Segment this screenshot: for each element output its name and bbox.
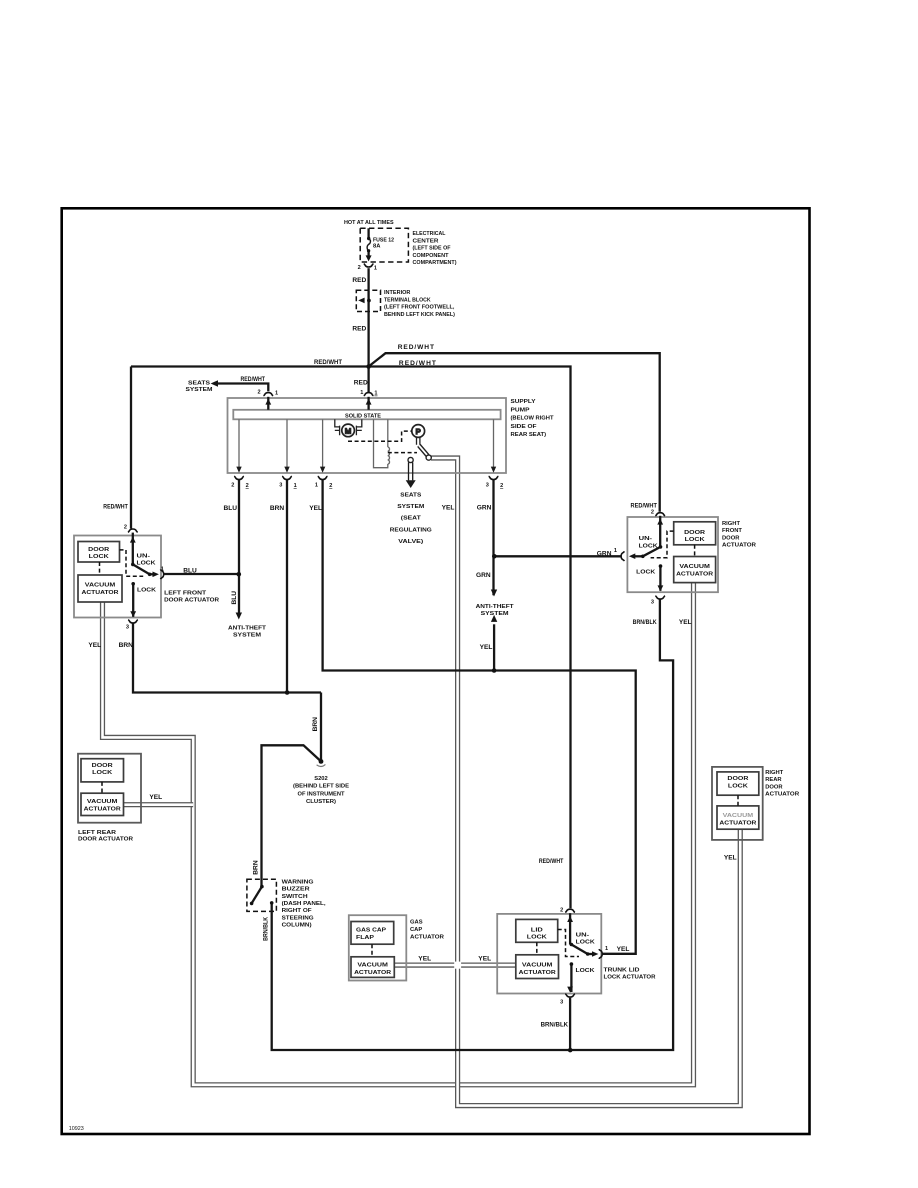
pump P	[408, 425, 431, 463]
door lock box LR	[81, 759, 124, 782]
svg-text:ANTI-THEFT: ANTI-THEFT	[228, 625, 266, 631]
svg-text:YEL: YEL	[480, 644, 493, 651]
svg-text:LOCK: LOCK	[576, 939, 596, 945]
valve lever capsule	[419, 445, 428, 455]
svg-text:(DASH PANEL,: (DASH PANEL,	[282, 901, 326, 907]
svg-text:ACTUATOR: ACTUATOR	[84, 806, 122, 812]
svg-text:1: 1	[374, 266, 377, 272]
svg-text:YEL: YEL	[149, 794, 162, 801]
door lock box LF	[78, 542, 120, 563]
interior block left arrow	[358, 298, 364, 304]
svg-text:RED/WHT: RED/WHT	[399, 360, 436, 367]
svg-text:REAR SEAT): REAR SEAT)	[511, 432, 547, 438]
LF switch right arrow	[153, 572, 159, 578]
svg-text:BRN: BRN	[312, 717, 319, 732]
BRN down to S202	[320, 693, 322, 762]
seat valve arrow	[406, 462, 416, 488]
supply pump box	[228, 398, 507, 473]
svg-text:WARNING: WARNING	[282, 879, 315, 885]
trunk switch right arrow	[592, 951, 598, 957]
svg-text:STEERING: STEERING	[282, 915, 315, 921]
junction BRN	[285, 690, 290, 695]
buzzer blade	[252, 887, 262, 904]
svg-text:P: P	[416, 427, 421, 436]
svg-text:2: 2	[560, 908, 563, 914]
LF pin2 wire inside	[132, 533, 134, 565]
seats system left arrow	[211, 380, 218, 387]
svg-text:3: 3	[486, 482, 489, 488]
svg-text:SUPPLY: SUPPLY	[511, 399, 536, 405]
red/wht to trunk	[369, 367, 571, 909]
seats system connector 2/1	[263, 393, 273, 396]
vacuum hose supply pump to right rear door	[431, 458, 740, 1106]
vacuum actuator box GC	[351, 957, 394, 978]
red/wht horizontal to left	[131, 365, 369, 367]
junction BRN/BLK	[568, 1048, 573, 1053]
svg-text:ACTUATOR: ACTUATOR	[82, 590, 120, 596]
svg-text:VACUUM: VACUUM	[85, 583, 116, 589]
svg-text:S202: S202	[314, 776, 328, 782]
svg-text:LEFT FRONT: LEFT FRONT	[164, 591, 207, 597]
GRAY BOXES	[74, 398, 763, 994]
wire main connector into box	[367, 397, 369, 410]
svg-text:3: 3	[279, 482, 282, 488]
svg-text:1: 1	[294, 483, 297, 489]
door lock box RF	[674, 522, 716, 545]
svg-text:SYSTEM: SYSTEM	[481, 611, 509, 617]
svg-text:BLU: BLU	[224, 505, 238, 512]
junction RED/WHT splice	[366, 364, 371, 369]
svg-text:BRN/BLK: BRN/BLK	[263, 917, 270, 941]
DASHED LINKS	[100, 228, 739, 957]
LF lock wire	[132, 584, 134, 617]
svg-text:8A: 8A	[373, 244, 381, 250]
vacuum actuator box RR	[717, 806, 759, 829]
gas cap flap box	[351, 922, 394, 945]
vacuum hose left rear branch	[124, 802, 194, 807]
svg-text:YEL: YEL	[418, 956, 431, 963]
fuse bottom connector	[364, 264, 374, 267]
RF up arrow	[657, 519, 663, 525]
seats connector up arrow	[265, 399, 271, 405]
svg-text:BUZZER: BUZZER	[282, 887, 311, 893]
svg-text:SEATS: SEATS	[400, 493, 421, 499]
trunk lock wire	[570, 964, 572, 992]
LF switch lock contact	[131, 582, 135, 586]
RF switch left arrow	[629, 553, 635, 559]
svg-text:(SEAT: (SEAT	[401, 516, 422, 522]
svg-text:2: 2	[231, 482, 234, 488]
svg-text:BEHIND LEFT KICK PANEL): BEHIND LEFT KICK PANEL)	[384, 312, 455, 318]
svg-text:VACUUM: VACUUM	[87, 799, 118, 805]
svg-text:SOLID STATE: SOLID STATE	[345, 413, 381, 419]
svg-text:BRN/BLK: BRN/BLK	[633, 619, 657, 626]
svg-text:RED: RED	[354, 380, 368, 387]
RF blade	[643, 547, 661, 556]
svg-text:CENTER: CENTER	[413, 238, 440, 244]
LF pin1 connector	[161, 569, 164, 579]
coil	[388, 447, 390, 464]
svg-text:UN-: UN-	[576, 932, 590, 938]
svg-text:ANTI-THEFT: ANTI-THEFT	[476, 604, 514, 610]
trunk pin2 inside	[569, 913, 571, 944]
buzzer switch blade end	[250, 902, 254, 906]
buzzer switch output contact	[270, 901, 274, 905]
svg-text:2: 2	[246, 483, 249, 489]
svg-text:VACUUM: VACUUM	[723, 813, 754, 819]
svg-text:VACUUM: VACUUM	[679, 564, 710, 570]
RF switch common contact	[641, 555, 645, 559]
YEL from pump	[323, 480, 636, 954]
svg-text:BLU: BLU	[231, 591, 238, 605]
svg-text:1: 1	[614, 548, 617, 554]
left front door actuator box	[74, 536, 161, 618]
svg-text:BLU: BLU	[183, 567, 197, 574]
drop line YEL	[322, 419, 324, 468]
lid lock box TR	[516, 919, 558, 942]
YEL anti-theft up arrow	[491, 615, 497, 622]
svg-text:SYSTEM: SYSTEM	[186, 387, 213, 393]
fuse terminal dot bottom	[367, 249, 370, 252]
svg-text:RED/WHT: RED/WHT	[241, 377, 266, 383]
junction BLU	[237, 572, 242, 577]
LF arrow to pin1	[150, 573, 155, 575]
main red connector 1/1	[364, 393, 374, 396]
buzzer switch contact top	[260, 885, 264, 889]
terminal block junction dot	[367, 299, 371, 303]
svg-text:GAS CAP: GAS CAP	[356, 928, 386, 934]
S202 hook	[317, 764, 326, 766]
fuse element	[367, 239, 370, 251]
svg-text:DOOR: DOOR	[727, 776, 749, 782]
seats system wire top left	[215, 384, 268, 392]
S202 splice	[319, 759, 324, 764]
trunk up arrow	[567, 916, 573, 922]
svg-text:ACTUATOR: ACTUATOR	[354, 970, 392, 976]
LF pin3 down and BRN horizontal	[133, 624, 321, 693]
svg-text:COMPONENT: COMPONENT	[413, 253, 449, 259]
main connector up arrow	[366, 399, 372, 405]
svg-text:REAR: REAR	[765, 777, 782, 783]
svg-text:RIGHT: RIGHT	[722, 521, 740, 527]
svg-text:REGULATING: REGULATING	[390, 527, 433, 533]
svg-text:VACUUM: VACUUM	[522, 962, 553, 968]
seat port circle	[408, 457, 413, 462]
svg-text:BRN: BRN	[253, 860, 260, 875]
svg-text:SWITCH: SWITCH	[282, 894, 308, 900]
vacuum hose gas cap to trunk	[394, 962, 516, 967]
svg-text:LOCK ACTUATOR: LOCK ACTUATOR	[604, 975, 657, 981]
LF pin2 connector	[128, 529, 138, 532]
svg-text:INTERIOR: INTERIOR	[384, 290, 411, 296]
vacuum actuator box RF	[674, 557, 716, 583]
svg-text:DOOR ACTUATOR: DOOR ACTUATOR	[78, 837, 134, 843]
wire RED fuse to terminal block	[367, 268, 369, 290]
RF pin2 inside	[659, 516, 661, 547]
motor M	[335, 419, 362, 436]
svg-text:SYSTEM: SYSTEM	[233, 632, 261, 638]
red/wht diagonal and top line to RF	[369, 353, 660, 512]
door lock box RR	[717, 772, 759, 795]
vacuum actuator box LR	[81, 793, 124, 815]
svg-text:LOCK: LOCK	[576, 968, 596, 974]
trunk switch unlock contact	[570, 943, 574, 947]
svg-text:COMPARTMENT): COMPARTMENT)	[413, 260, 457, 266]
svg-text:2: 2	[358, 265, 361, 271]
right rear door actuator box	[712, 767, 763, 840]
svg-text:3: 3	[560, 999, 563, 1005]
svg-text:YEL: YEL	[442, 505, 455, 512]
trunk lid lock actuator box	[497, 914, 601, 994]
svg-text:1: 1	[275, 391, 278, 397]
vacuum actuator box TR	[516, 955, 559, 979]
vacuum actuator box LF	[78, 575, 122, 602]
svg-text:BRN: BRN	[270, 505, 285, 512]
svg-text:SYSTEM: SYSTEM	[397, 504, 424, 510]
svg-text:LID: LID	[531, 927, 543, 933]
coil loop	[374, 419, 388, 467]
YEL branch anti-theft	[493, 624, 495, 670]
svg-text:ACTUATOR: ACTUATOR	[519, 970, 557, 976]
svg-text:PUMP: PUMP	[511, 407, 530, 413]
svg-text:(LEFT FRONT FOOTWELL,: (LEFT FRONT FOOTWELL,	[384, 305, 455, 311]
svg-text:RED: RED	[352, 277, 366, 284]
svg-text:UN-: UN-	[137, 554, 151, 560]
svg-text:YEL: YEL	[478, 956, 491, 963]
svg-text:DOOR ACTUATOR: DOOR ACTUATOR	[164, 598, 220, 604]
trunk pin1 connector	[599, 949, 602, 959]
junction GRN	[492, 554, 497, 559]
svg-text:DOOR: DOOR	[88, 547, 110, 553]
RF switch unlock contact	[659, 545, 663, 549]
svg-text:FRONT: FRONT	[722, 528, 742, 534]
svg-text:YEL: YEL	[309, 505, 322, 512]
svg-text:LOCK: LOCK	[92, 770, 113, 776]
RF pin2 connector	[655, 513, 665, 516]
svg-text:LOCK: LOCK	[636, 569, 656, 575]
svg-text:SIDE OF: SIDE OF	[511, 424, 538, 430]
svg-text:(BEHIND LEFT SIDE: (BEHIND LEFT SIDE	[293, 784, 349, 790]
RF arrow shaft to pin1	[633, 555, 643, 557]
outer page border	[62, 208, 810, 1134]
RF pin3 inside	[659, 566, 661, 591]
trunk switch lock contact	[570, 962, 574, 966]
svg-text:YEL: YEL	[617, 946, 630, 953]
svg-text:VALVE): VALVE)	[398, 539, 423, 545]
svg-text:OF INSTRUMENT: OF INSTRUMENT	[298, 791, 345, 797]
svg-text:1: 1	[605, 946, 608, 952]
BLU wire	[238, 480, 240, 614]
S202 branch to buzzer	[262, 745, 322, 886]
pump bottom connector pins	[234, 476, 244, 479]
gas cap actuator box	[349, 915, 407, 980]
svg-text:HOT AT ALL TIMES: HOT AT ALL TIMES	[344, 220, 394, 226]
svg-text:FUSE 12: FUSE 12	[373, 237, 394, 243]
RF switch lock contact	[659, 564, 663, 568]
svg-text:RED/WHT: RED/WHT	[103, 504, 128, 511]
svg-text:ACTUATOR: ACTUATOR	[722, 543, 757, 549]
svg-text:M: M	[345, 426, 351, 435]
GRN horizontal to RF pin1	[494, 555, 620, 557]
red/wht left vertical to LF pin2	[130, 367, 132, 529]
svg-text:GRN: GRN	[477, 505, 492, 512]
svg-text:1: 1	[161, 566, 164, 572]
LF switch unlock contact	[131, 563, 135, 567]
RF pin3 connector	[655, 596, 665, 599]
trunk down arrow pin3	[567, 987, 573, 993]
junction YEL	[492, 668, 497, 673]
svg-text:DOOR: DOOR	[92, 763, 114, 769]
svg-text:CAP: CAP	[410, 927, 422, 933]
LF up arrow	[130, 537, 136, 543]
svg-text:ACTUATOR: ACTUATOR	[676, 572, 714, 578]
LF pin3 connector	[128, 620, 138, 623]
trunk switch common contact	[586, 952, 590, 956]
svg-text:ACTUATOR: ACTUATOR	[410, 935, 445, 941]
GRN wire	[492, 480, 494, 595]
svg-text:COLUMN): COLUMN)	[282, 923, 312, 929]
svg-text:FLAP: FLAP	[356, 935, 374, 941]
svg-text:UN-: UN-	[639, 536, 653, 542]
svg-text:SEATS: SEATS	[188, 380, 210, 386]
PUMP INTERNALS	[239, 419, 494, 468]
fuse arrow	[366, 255, 372, 261]
svg-text:DOOR: DOOR	[722, 535, 740, 541]
svg-text:RED/WHT: RED/WHT	[398, 344, 434, 351]
BRN from pump	[286, 480, 288, 693]
fuse wire top	[367, 228, 369, 238]
LF switch common contact	[148, 573, 152, 577]
svg-text:DOOR: DOOR	[684, 530, 706, 536]
svg-text:GRN: GRN	[597, 550, 612, 557]
svg-text:LOCK: LOCK	[639, 543, 659, 549]
trunk pin3 connector	[565, 994, 575, 997]
svg-text:1: 1	[315, 482, 318, 488]
left rear door actuator box	[78, 754, 141, 823]
svg-text:BRN/BLK: BRN/BLK	[541, 1022, 569, 1029]
svg-text:ACTUATOR: ACTUATOR	[719, 820, 757, 826]
svg-text:CLUSTER): CLUSTER)	[306, 799, 336, 805]
BLACK WIRES	[131, 228, 673, 1050]
drop line BLU	[238, 419, 240, 468]
trunk pin3 wire	[569, 998, 571, 1050]
svg-text:TERMINAL BLOCK: TERMINAL BLOCK	[384, 297, 431, 303]
wire through interior terminal block down to junction	[367, 290, 369, 392]
svg-text:LOCK: LOCK	[685, 537, 706, 543]
svg-text:RIGHT: RIGHT	[765, 770, 783, 776]
svg-text:RED: RED	[352, 325, 366, 332]
svg-text:2: 2	[329, 483, 332, 489]
svg-text:RED/WHT: RED/WHT	[539, 858, 564, 865]
LF down arrow pin3	[130, 611, 136, 617]
svg-text:3: 3	[651, 600, 654, 606]
RF pin1 connector	[621, 551, 624, 561]
svg-text:YEL: YEL	[724, 854, 737, 861]
drop line GRN	[493, 419, 495, 468]
svg-text:ELECTRICAL: ELECTRICAL	[413, 231, 446, 237]
svg-text:2: 2	[257, 389, 260, 395]
svg-text:LOCK: LOCK	[728, 783, 749, 789]
svg-text:LOCK: LOCK	[89, 554, 110, 560]
HOSES	[103, 458, 741, 1106]
wire seats connector into box	[267, 397, 269, 410]
BLU horizontal from LF pin1	[164, 573, 239, 575]
svg-text:GAS: GAS	[410, 920, 423, 926]
buzzer output BRN/BLK	[272, 599, 673, 1050]
svg-text:GRN: GRN	[476, 572, 491, 579]
svg-text:2: 2	[124, 524, 127, 530]
fuse to connector	[367, 251, 369, 257]
trunk pin2 connector	[565, 909, 575, 912]
BLU anti-theft down arrow	[236, 613, 242, 620]
svg-text:1: 1	[374, 391, 377, 397]
trunk arrow shaft	[588, 953, 594, 955]
svg-text:LOCK: LOCK	[527, 935, 548, 941]
svg-text:(BELOW RIGHT: (BELOW RIGHT	[511, 416, 554, 422]
trunk blade	[571, 945, 587, 955]
svg-text:VACUUM: VACUUM	[357, 962, 388, 968]
svg-text:2: 2	[651, 509, 654, 515]
svg-text:BRN: BRN	[119, 642, 134, 649]
svg-text:3: 3	[126, 624, 129, 630]
vacuum hose left front door to right front door	[103, 583, 694, 1085]
svg-text:TRUNK LID: TRUNK LID	[604, 968, 640, 974]
right front door actuator box	[627, 517, 718, 592]
svg-text:YEL: YEL	[679, 619, 692, 626]
fuse terminal dot top	[367, 237, 370, 240]
svg-text:1: 1	[360, 390, 363, 396]
svg-text:DOOR: DOOR	[765, 784, 783, 790]
svg-text:RIGHT OF: RIGHT OF	[282, 908, 312, 914]
solid state bar	[233, 410, 500, 420]
drop line BRN	[286, 419, 288, 468]
svg-text:(LEFT SIDE OF: (LEFT SIDE OF	[413, 246, 451, 252]
svg-text:YEL: YEL	[88, 642, 101, 649]
ARROWHEADS	[130, 255, 663, 992]
GRN anti-theft down arrow	[491, 590, 497, 597]
svg-text:10923: 10923	[69, 1126, 84, 1132]
svg-text:ACTUATOR: ACTUATOR	[765, 792, 800, 798]
hose crossing white patch	[454, 962, 461, 969]
svg-text:2: 2	[500, 483, 503, 489]
svg-text:RED/WHT: RED/WHT	[314, 359, 342, 366]
svg-text:LOCK: LOCK	[137, 588, 157, 594]
LF blade	[133, 564, 150, 574]
RF down arrow pin3	[658, 585, 664, 591]
svg-text:LOCK: LOCK	[137, 561, 157, 567]
svg-text:LEFT REAR: LEFT REAR	[78, 830, 117, 836]
